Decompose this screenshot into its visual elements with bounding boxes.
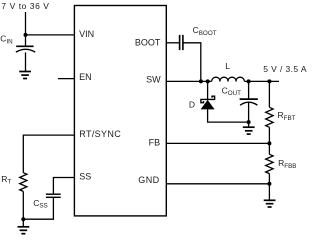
svg-text:EN: EN <box>79 72 92 82</box>
svg-text:GND: GND <box>138 175 159 185</box>
svg-text:SW: SW <box>146 75 161 85</box>
svg-text:RT/SYNC: RT/SYNC <box>79 129 121 139</box>
svg-text:SS: SS <box>79 172 91 182</box>
svg-text:D: D <box>189 100 195 110</box>
svg-text:FB: FB <box>149 138 161 148</box>
svg-text:7 V to 36 V: 7 V to 36 V <box>1 1 49 11</box>
svg-text:VIN: VIN <box>79 29 94 39</box>
svg-text:BOOT: BOOT <box>135 38 161 48</box>
svg-text:L: L <box>225 61 230 71</box>
svg-text:5 V / 3.5 A: 5 V / 3.5 A <box>263 64 307 74</box>
